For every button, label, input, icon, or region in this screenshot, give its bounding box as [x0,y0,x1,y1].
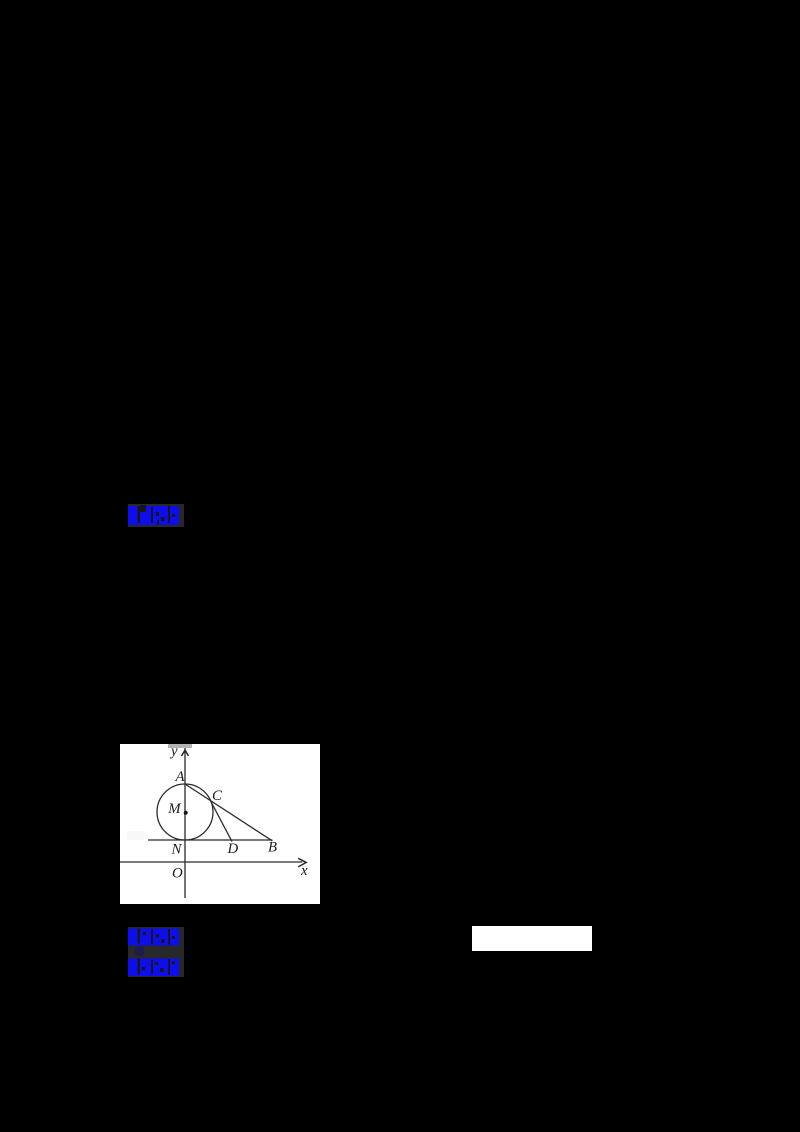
x-axis [120,861,302,863]
line N D B horizontal [148,839,272,841]
y-axis [184,748,186,898]
answer blank (white box) [472,926,592,951]
svg-text:A: A [175,769,186,785]
line A to B [185,784,272,841]
answer label text [Answer] blue bold CJK [128,928,180,946]
svg-text:D: D [227,841,239,857]
y-axis arrowhead [182,750,189,756]
example label text [Example 1] blue bold CJK [128,505,180,525]
answer/analysis labels highlight (selection) [128,927,184,977]
svg-text:O: O [172,866,183,882]
svg-text:x: x [300,863,308,879]
x-axis arrowhead [298,858,306,867]
svg-text:y: y [169,744,178,760]
descender bleed between label rows [135,946,144,956]
line C to D [211,801,232,842]
gray residue strip at top of panel [168,744,192,748]
circle M [157,784,213,840]
svg-text:C: C [212,788,222,804]
svg-text:B: B [268,840,277,856]
example label highlight (selection) [128,504,184,527]
center dot M [184,811,188,815]
faint smudge left of circle [127,831,144,840]
analysis label text [Analysis] blue bold CJK [128,958,180,976]
svg-text:M: M [167,801,181,817]
figure panel (white) [120,744,320,904]
svg-text:N: N [171,842,183,858]
